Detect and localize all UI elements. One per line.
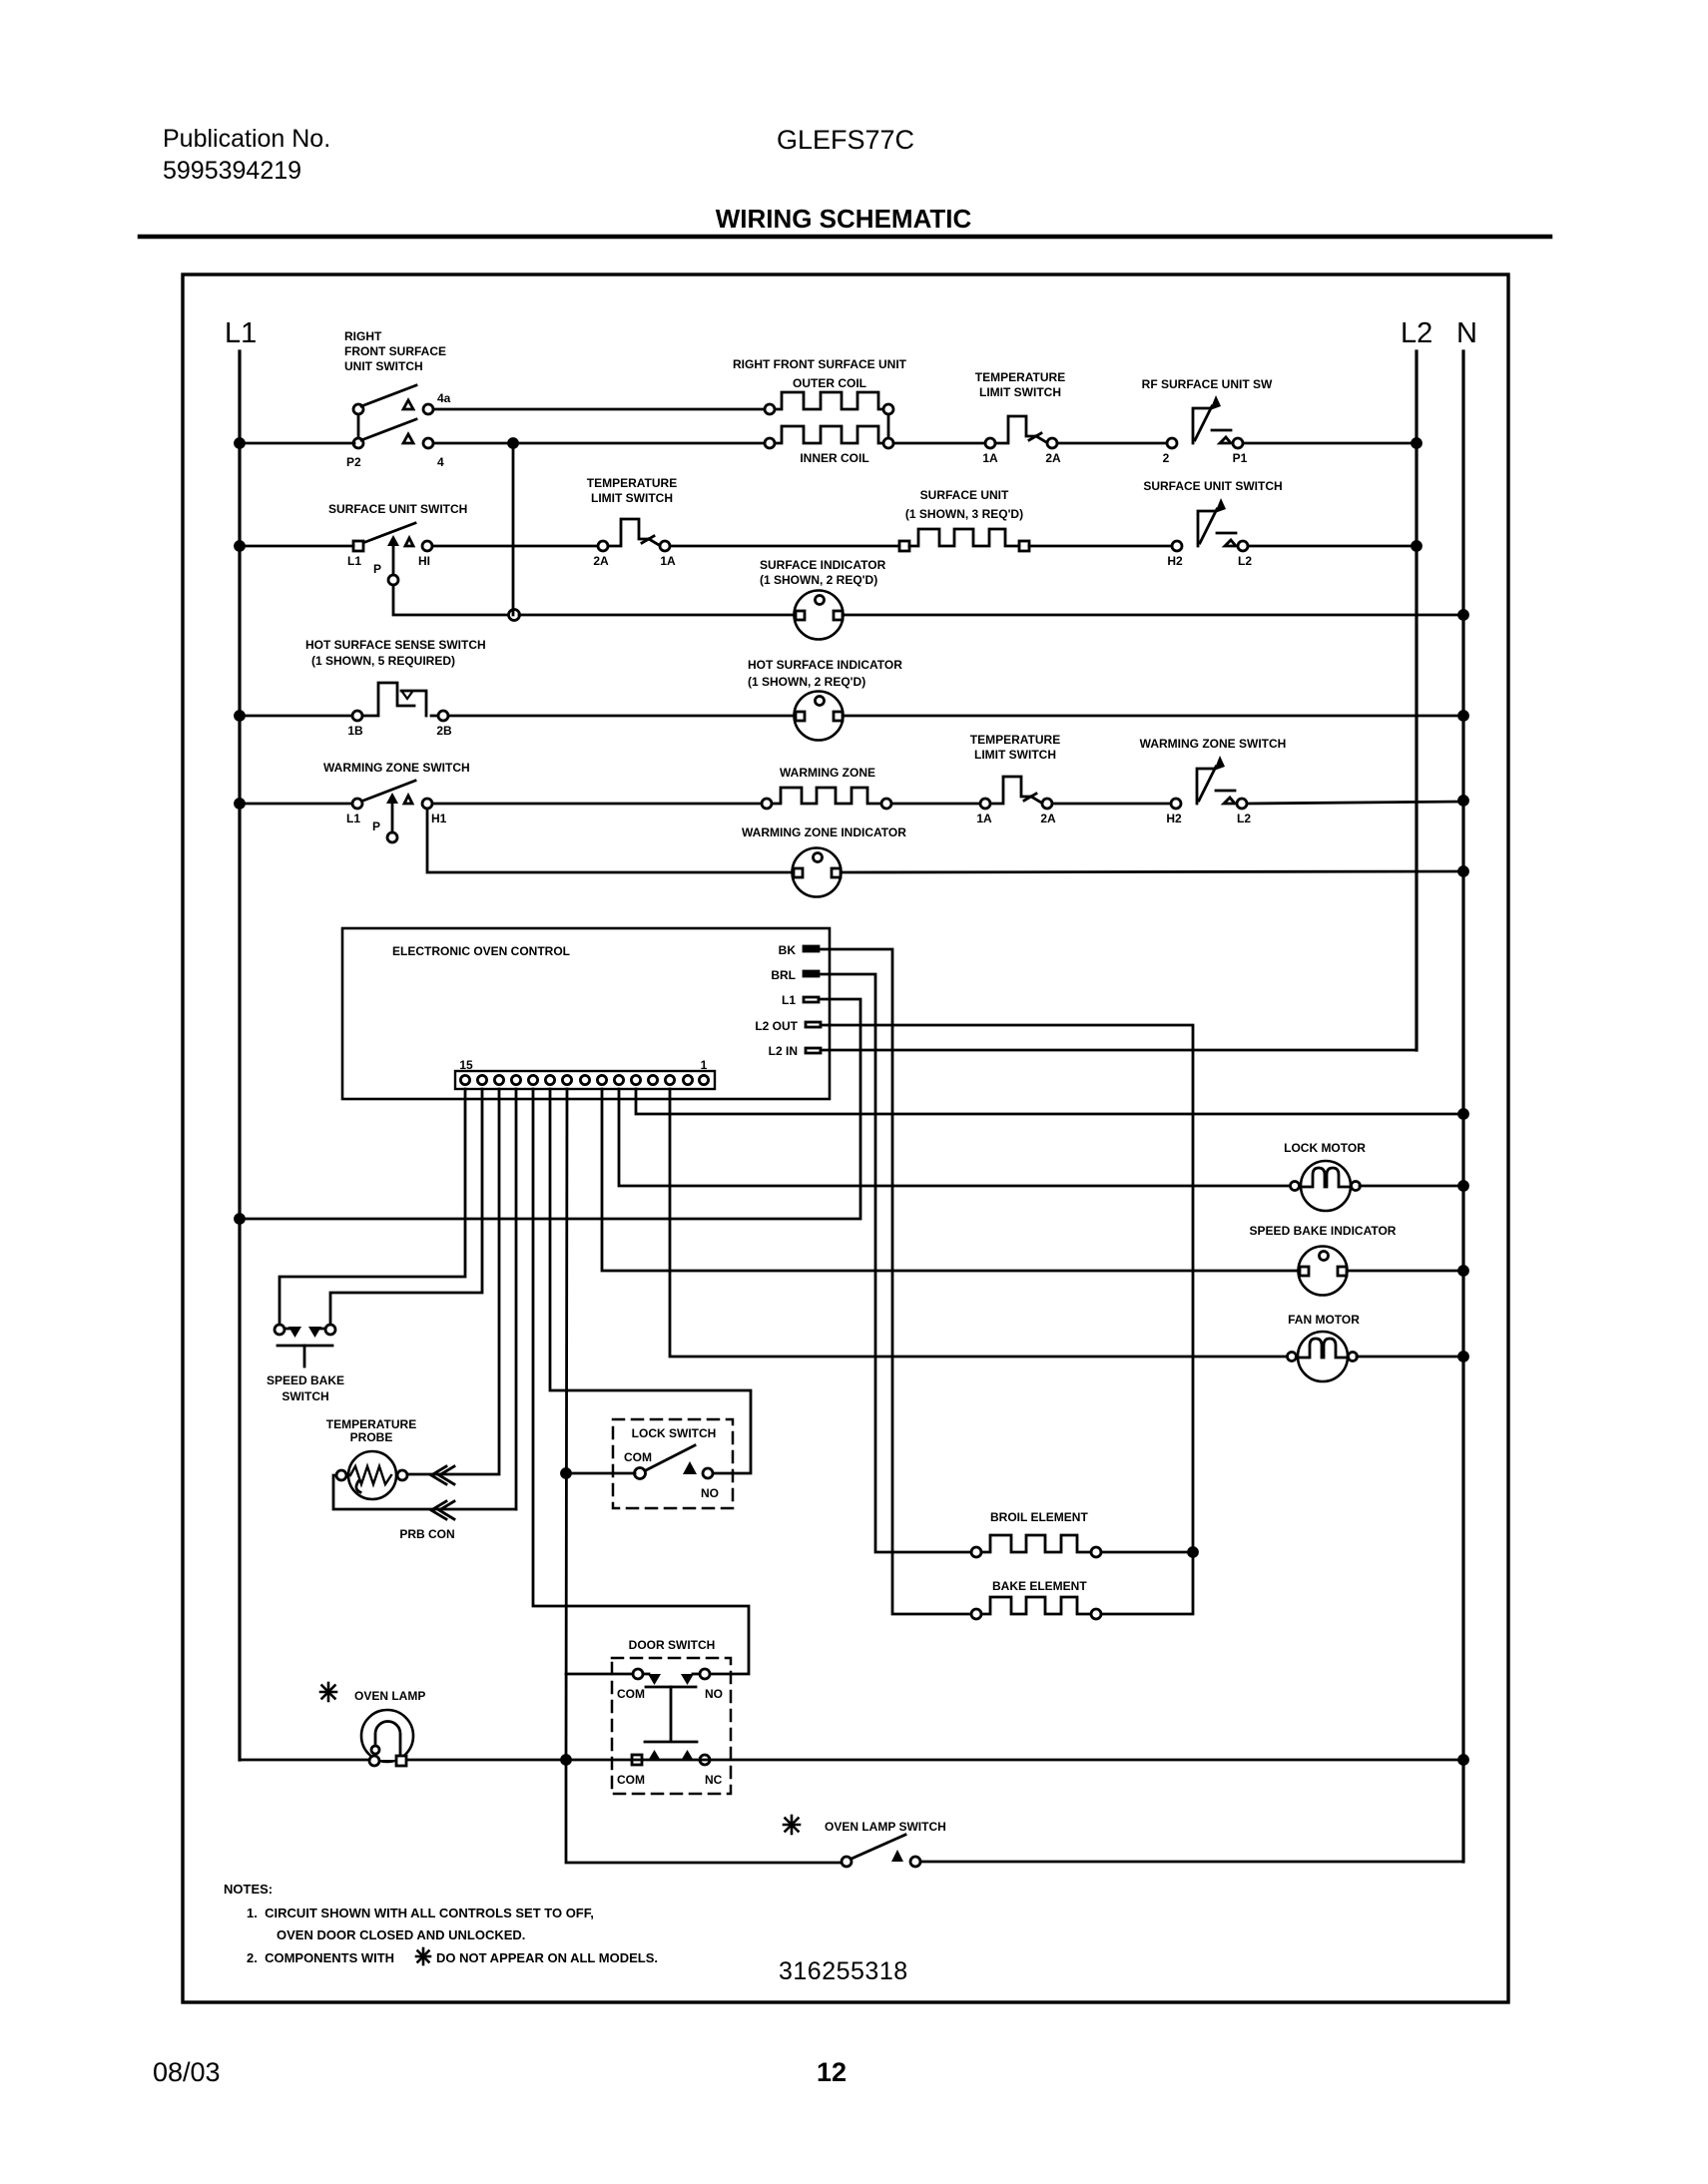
svg-text:5995394219: 5995394219 [163, 157, 301, 185]
schematic boundary box [183, 274, 1508, 2002]
wire pin7 to speed bake indicator [602, 1089, 1298, 1271]
svg-text:HOT SURFACE INDICATOR: HOT SURFACE INDICATOR [748, 658, 902, 672]
svg-text:TEMPERATURE: TEMPERATURE [970, 733, 1060, 747]
wire TLS3 to H2 [1052, 803, 1171, 806]
junction ring drop/indicator [509, 610, 520, 621]
wire hot surface indicator to N [844, 715, 1463, 718]
switch oven lamp switch [842, 1835, 920, 1867]
junction N surface indicator [1459, 611, 1468, 620]
wire L2 IN pin to L2 bus [821, 1049, 1417, 1052]
junction L1 row3 [236, 712, 245, 721]
svg-text:HI: HI [418, 554, 430, 568]
wire P1 to L2 [1243, 442, 1417, 445]
pin L2 IN [806, 1048, 821, 1053]
svg-text:2A: 2A [1045, 451, 1061, 465]
svg-text:SURFACE UNIT SWITCH: SURFACE UNIT SWITCH [1143, 479, 1282, 493]
svg-text:WARMING ZONE SWITCH: WARMING ZONE SWITCH [323, 761, 470, 775]
wire main bottom row [240, 1759, 1463, 1762]
svg-text:12: 12 [817, 2057, 847, 2087]
lamp surface indicator [795, 591, 844, 640]
switch door switch (dashed box) [612, 1658, 731, 1794]
switch warming zone switch (left) [352, 781, 432, 842]
wire oven lamp switch to N leg [920, 1861, 1463, 1864]
wire TLS1 to RF switch [1057, 442, 1167, 445]
wire coil to TLS3 [891, 803, 980, 806]
actuator door switch link [645, 1687, 697, 1742]
svg-text:WARMING ZONE SWITCH: WARMING ZONE SWITCH [1140, 737, 1287, 751]
svg-text:COM: COM [624, 1450, 652, 1464]
svg-text:316255318: 316255318 [779, 1957, 908, 1985]
svg-text:SURFACE UNIT SWITCH: SURFACE UNIT SWITCH [328, 502, 467, 516]
junction L1 row4 [236, 800, 245, 809]
svg-text:H2: H2 [1167, 554, 1183, 568]
svg-text:L2: L2 [1238, 554, 1252, 568]
svg-text:DOOR SWITCH: DOOR SWITCH [629, 1638, 716, 1652]
wire pin9 tee to door COM top [566, 1673, 633, 1676]
svg-text:1A: 1A [982, 451, 998, 465]
junction N lock motor [1459, 1182, 1468, 1191]
thermal switch temperature limit switch row2 [598, 519, 670, 551]
svg-text:15: 15 [459, 1058, 473, 1072]
junction broil tap [1189, 1548, 1198, 1557]
wire BRL pin to broil element [819, 974, 971, 1552]
lamp hot surface indicator [795, 692, 844, 741]
wire BK pin to bake element [819, 949, 971, 1614]
svg-text:LOCK MOTOR: LOCK MOTOR [1284, 1141, 1366, 1155]
junction pin9 main wire [562, 1756, 571, 1765]
svg-text:08/03: 08/03 [153, 2057, 221, 2087]
junction N pin5 [1459, 1110, 1468, 1119]
wire pin6 to lock motor [619, 1089, 1290, 1186]
resistor inner coil [765, 426, 893, 448]
svg-text:N: N [1456, 317, 1477, 349]
svg-text:(1 SHOWN, 2 REQ'D): (1 SHOWN, 2 REQ'D) [760, 573, 877, 587]
switch lock switch (dashed box) [613, 1419, 733, 1508]
junction L1 row1 [236, 439, 245, 448]
SECTION: header [163, 125, 972, 234]
svg-text:DO NOT APPEAR ON ALL MODELS.: DO NOT APPEAR ON ALL MODELS. [436, 1950, 658, 1965]
wire L1 to warming zone switch [240, 803, 352, 806]
junction N bottom [1459, 1756, 1468, 1765]
junction N row4 [1459, 797, 1468, 806]
junction N fan motor [1459, 1353, 1468, 1362]
connector chevron PRB CON [431, 1501, 454, 1519]
wire pin3 to fan motor [670, 1089, 1290, 1357]
svg-text:L1: L1 [225, 317, 257, 349]
svg-text:RIGHT: RIGHT [344, 329, 382, 343]
svg-text:SPEED BAKE: SPEED BAKE [267, 1373, 344, 1387]
svg-text:PROBE: PROBE [350, 1430, 393, 1444]
wire 2B to hot surface indicator [448, 715, 794, 718]
svg-text:2B: 2B [436, 724, 452, 738]
svg-text:WARMING ZONE INDICATOR: WARMING ZONE INDICATOR [742, 825, 906, 839]
svg-text:NO: NO [701, 1486, 719, 1500]
wire inner coil to TLS1 [893, 442, 985, 445]
svg-text:GLEFS77C: GLEFS77C [777, 125, 914, 155]
svg-text:L1: L1 [782, 993, 796, 1007]
svg-text:L1: L1 [347, 554, 361, 568]
svg-text:2. COMPONENTS WITH: 2. COMPONENTS WITH [247, 1950, 394, 1965]
pin BK [804, 946, 819, 951]
wire speed bake indicator to N [1348, 1270, 1463, 1273]
wire L2term to N [1247, 802, 1463, 804]
svg-text:H2: H2 [1166, 812, 1182, 825]
svg-text:4: 4 [437, 455, 444, 469]
junction L2 row2 [1413, 542, 1422, 551]
svg-text:(1 SHOWN, 3 REQ'D): (1 SHOWN, 3 REQ'D) [905, 507, 1023, 521]
svg-text:NOTES:: NOTES: [224, 1882, 273, 1897]
wire fan motor to N [1357, 1356, 1463, 1359]
wire H1 drop to indicator [427, 809, 792, 872]
motor lock motor [1291, 1161, 1361, 1211]
wire junction to surface indicator [519, 614, 794, 617]
pin L2 OUT [806, 1022, 821, 1027]
switch speed bake switch [275, 1325, 335, 1366]
resistor bake element [971, 1597, 1101, 1619]
switch warming zone switch (right, infinite) [1171, 756, 1247, 809]
svg-text:P2: P2 [346, 455, 361, 469]
svg-text:TEMPERATURE: TEMPERATURE [975, 370, 1065, 384]
junction L2 row1 [1413, 439, 1422, 448]
svg-text:NC: NC [705, 1773, 723, 1787]
svg-text:L2: L2 [1237, 812, 1251, 825]
svg-text:OVEN LAMP: OVEN LAMP [354, 1689, 425, 1703]
svg-text:2A: 2A [593, 554, 609, 568]
svg-text:2: 2 [1163, 451, 1170, 465]
svg-text:WIRING SCHEMATIC: WIRING SCHEMATIC [716, 204, 972, 234]
lamp oven lamp [361, 1710, 413, 1766]
resistor warming zone coil [762, 788, 891, 809]
svg-text:(1 SHOWN, 5 REQUIRED): (1 SHOWN, 5 REQUIRED) [311, 654, 455, 668]
svg-text:FRONT SURFACE: FRONT SURFACE [344, 344, 446, 358]
wire pin15 to speed bake switch [280, 1089, 465, 1325]
svg-text:TEMPERATURE: TEMPERATURE [587, 476, 677, 490]
wire pin5 to N [636, 1089, 1463, 1114]
connector terminal strip 15..1 [455, 1071, 715, 1089]
wire N bus [1461, 351, 1464, 1862]
junction N row3 [1459, 712, 1468, 721]
svg-text:BK: BK [779, 943, 797, 957]
svg-text:COM: COM [617, 1773, 645, 1787]
resistor temperature probe [336, 1451, 407, 1499]
asterisk oven lamp [320, 1683, 336, 1701]
svg-text:SURFACE UNIT: SURFACE UNIT [920, 488, 1009, 502]
svg-text:HOT SURFACE SENSE SWITCH: HOT SURFACE SENSE SWITCH [305, 638, 486, 652]
wire L2 OUT pin down right side [821, 1025, 1193, 1614]
wire coil link [887, 414, 890, 438]
wire probe loop to pin12 [333, 1475, 516, 1509]
svg-text:SPEED BAKE INDICATOR: SPEED BAKE INDICATOR [1250, 1224, 1397, 1238]
wire L2 bus [1415, 351, 1418, 1050]
wire P stub to indicator row [393, 585, 508, 615]
pin BRL [804, 971, 819, 976]
svg-text:L2 IN: L2 IN [769, 1044, 798, 1058]
lamp warming zone indicator [793, 848, 842, 897]
wire L1 to P2 [240, 442, 354, 445]
svg-text:H1: H1 [431, 812, 447, 825]
svg-text:LIMIT SWITCH: LIMIT SWITCH [979, 385, 1061, 399]
svg-text:FAN MOTOR: FAN MOTOR [1288, 1313, 1360, 1327]
switch hot surface sense switch [352, 683, 448, 721]
wire 4a to outer coil [433, 408, 765, 411]
resistor broil element [971, 1535, 1101, 1557]
svg-text:LIMIT SWITCH: LIMIT SWITCH [591, 491, 673, 505]
svg-text:RIGHT FRONT SURFACE UNIT: RIGHT FRONT SURFACE UNIT [733, 357, 907, 371]
svg-text:LOCK SWITCH: LOCK SWITCH [632, 1426, 717, 1440]
wire L1 to switch [240, 545, 353, 548]
switch RF surface unit SW (infinite switch) [1167, 395, 1243, 448]
wire L1 to 1B [240, 715, 352, 718]
svg-text:1. CIRCUIT SHOWN WITH ALL CON: 1. CIRCUIT SHOWN WITH ALL CONTROLS SET T… [247, 1906, 594, 1920]
svg-text:1A: 1A [976, 812, 992, 825]
svg-text:L2: L2 [1401, 317, 1432, 349]
svg-text:COM: COM [617, 1687, 645, 1701]
wire H1 to warming zone coil [432, 803, 762, 806]
wire pin12 to PRB CON [515, 1089, 518, 1509]
svg-text:RF SURFACE UNIT SW: RF SURFACE UNIT SW [1142, 377, 1273, 391]
svg-text:SWITCH: SWITCH [282, 1389, 328, 1403]
wire broil to L2OUT drop [1101, 1551, 1193, 1554]
junction N warming zone indicator [1459, 867, 1468, 876]
wire L2term to L2 bus [1248, 545, 1417, 548]
switch right front surface unit switch (DPDT P2/4/4a) [353, 385, 433, 448]
pin L1 [804, 997, 819, 1002]
svg-text:SURFACE INDICATOR: SURFACE INDICATOR [760, 558, 886, 572]
junction row1 drop [509, 439, 518, 448]
thermal switch temperature limit switch row1 [985, 416, 1057, 448]
svg-text:L1: L1 [346, 812, 360, 825]
svg-text:OUTER COIL: OUTER COIL [793, 376, 866, 390]
junction pin9 lock switch [562, 1469, 571, 1478]
svg-text:ELECTRONIC OVEN CONTROL: ELECTRONIC OVEN CONTROL [392, 944, 570, 958]
svg-text:1: 1 [701, 1058, 708, 1072]
resistor surface unit coil [899, 529, 1029, 551]
wire pin13 to temperature probe [408, 1089, 499, 1474]
SECTION: notes & footer [224, 1882, 658, 1965]
svg-text:P1: P1 [1233, 451, 1248, 465]
contact door switch bottom pole [632, 1750, 710, 1765]
IC electronic oven control box [342, 928, 830, 1099]
junction L1 EOC wire [236, 1215, 245, 1224]
svg-text:BAKE ELEMENT: BAKE ELEMENT [992, 1579, 1087, 1593]
thermal switch temperature limit switch row4 [980, 777, 1052, 809]
svg-text:WARMING ZONE: WARMING ZONE [780, 766, 875, 780]
svg-text:OVEN LAMP SWITCH: OVEN LAMP SWITCH [825, 1820, 946, 1834]
svg-text:BROIL ELEMENT: BROIL ELEMENT [990, 1510, 1088, 1524]
contact door switch top pole [633, 1669, 710, 1685]
svg-text:P: P [373, 562, 381, 576]
wire pin10 to lock switch NO [550, 1089, 751, 1473]
svg-text:BRL: BRL [771, 968, 796, 982]
wire pin9 main drop [566, 1089, 842, 1863]
svg-text:Publication No.: Publication No. [163, 125, 330, 153]
header rule [140, 235, 1550, 240]
svg-text:1B: 1B [347, 724, 363, 738]
svg-text:L2 OUT: L2 OUT [755, 1019, 798, 1033]
svg-text:LIMIT SWITCH: LIMIT SWITCH [974, 748, 1056, 762]
connector chevron probe top [431, 1466, 454, 1484]
junction N speed bake indicator [1459, 1267, 1468, 1276]
wire surface indicator to N [844, 614, 1463, 617]
resistor outer coil [765, 392, 893, 414]
svg-text:OVEN DOOR CLOSED AND UNLOCKED.: OVEN DOOR CLOSED AND UNLOCKED. [277, 1927, 525, 1942]
svg-text:1A: 1A [660, 554, 676, 568]
svg-text:UNIT SWITCH: UNIT SWITCH [344, 359, 423, 373]
wire HI to TLS2 [432, 545, 598, 548]
wire 4 to inner coil [433, 442, 765, 445]
motor fan motor [1288, 1332, 1358, 1381]
wire coil to H2 [1029, 545, 1172, 548]
wire L1 bus [238, 351, 241, 1760]
wire TLS2 to coil [670, 545, 899, 548]
svg-text:TEMPERATURE: TEMPERATURE [326, 1417, 416, 1431]
svg-text:(1 SHOWN, 2 REQ'D): (1 SHOWN, 2 REQ'D) [748, 675, 865, 689]
switch surface unit switch (left) [353, 523, 432, 585]
svg-text:INNER COIL: INNER COIL [800, 451, 868, 465]
svg-text:NO: NO [705, 1687, 723, 1701]
wire drop from row1 to surface indicator row [512, 443, 515, 615]
wire lock motor to N [1360, 1185, 1463, 1188]
SECTION: buses [225, 317, 1477, 349]
wire pin14 to speed bake switch [330, 1089, 482, 1325]
wire indicator to N [842, 871, 1463, 872]
svg-text:P: P [372, 819, 380, 833]
junction L1 row2 [236, 542, 245, 551]
lamp speed bake indicator [1299, 1247, 1348, 1296]
svg-text:4a: 4a [437, 391, 451, 405]
svg-text:2A: 2A [1040, 812, 1056, 825]
wire L1 pin to L1 bus [240, 999, 860, 1219]
switch surface unit switch (right, infinite) [1172, 498, 1248, 551]
svg-text:PRB CON: PRB CON [399, 1527, 454, 1541]
wire pin11 to door switch NO [533, 1089, 749, 1674]
